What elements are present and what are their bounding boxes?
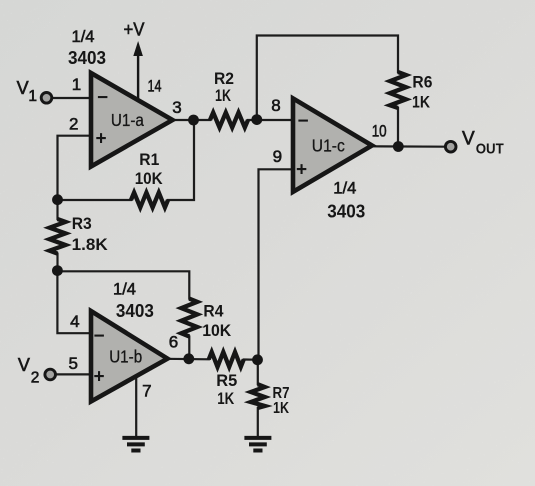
svg-text:2: 2 [31, 370, 40, 387]
svg-text:R1: R1 [139, 150, 159, 169]
wire: R5 right lead to R5/R7 node [244, 358, 259, 360]
svg-text:3: 3 [172, 98, 181, 117]
input terminal V2 [18, 355, 56, 387]
wire: R4 bottom lead to pin 6 node [188, 337, 190, 359]
svg-text:R3: R3 [72, 214, 92, 233]
resistor R4 [181, 299, 197, 337]
resistor R5 [209, 352, 244, 367]
node: pin 3 output junction [188, 115, 199, 126]
output terminal VOUT [445, 129, 503, 158]
svg-text:5: 5 [68, 354, 77, 373]
svg-text:1.8K: 1.8K [72, 235, 109, 254]
svg-text:6: 6 [169, 333, 178, 352]
wire: R1 right lead up to pin 3 node [168, 121, 194, 200]
node: pin 8 junction [251, 114, 262, 125]
node: R5/R7/pin9 junction [252, 354, 263, 365]
svg-text:3403: 3403 [327, 200, 365, 221]
svg-text:1: 1 [72, 75, 81, 94]
svg-text:9: 9 [273, 147, 282, 166]
power +V supply arrow [124, 20, 145, 101]
svg-text:U1-c: U1-c [312, 135, 345, 155]
node: output junction at pin 10 [393, 141, 404, 152]
svg-text:7: 7 [142, 381, 151, 400]
svg-text:1K: 1K [215, 86, 232, 105]
wire: node B across to R4 top lead [57, 271, 189, 298]
svg-text:3403: 3403 [68, 47, 106, 68]
resistor R1 [131, 193, 168, 208]
op-amp U1-a [91, 73, 173, 167]
svg-text:R4: R4 [203, 301, 223, 320]
op-amp U1-c [293, 98, 372, 191]
wire: U1-c pin 9 down to R5/R7 node [259, 169, 295, 359]
svg-text:R6: R6 [412, 73, 432, 92]
wire: R5/R7 node down to R7 [257, 360, 259, 384]
svg-text:V: V [462, 129, 475, 150]
svg-text:−: − [94, 326, 105, 347]
svg-text:U1-a: U1-a [111, 110, 144, 130]
wire: R7 bottom to ground [257, 408, 259, 437]
svg-text:1/4: 1/4 [113, 280, 136, 299]
svg-text:1: 1 [28, 88, 37, 105]
resistor R2 [210, 113, 248, 128]
svg-text:1/4: 1/4 [72, 27, 95, 46]
svg-text:14: 14 [148, 77, 162, 96]
svg-text:1K: 1K [273, 400, 289, 417]
svg-text:+: + [96, 129, 107, 150]
wire: R2 to U1-c pin 8 [248, 119, 294, 121]
wire: pin 8 node up and across to R6 [257, 36, 398, 120]
wire: V2 terminal to U1-b pin 5 [56, 373, 93, 375]
svg-text:10K: 10K [135, 169, 164, 188]
ground (below U1-b pin 7) [122, 438, 149, 451]
svg-text:4: 4 [70, 312, 79, 331]
svg-text:+: + [296, 159, 307, 180]
svg-text:10: 10 [372, 121, 387, 140]
wire: U1-c pin 10 output to VOUT terminal [370, 145, 446, 148]
wire: U1-a pin 3 output to R2 [171, 119, 210, 121]
svg-text:R5: R5 [216, 371, 237, 390]
resistor R3 [50, 219, 66, 254]
svg-text:−: − [97, 88, 108, 109]
resistor R6 [390, 72, 406, 108]
wire: node A to R1 left lead [58, 199, 132, 201]
wire: R3 bottom lead to node B [56, 254, 58, 271]
wire: V1 terminal to U1-a pin 1 [52, 97, 92, 99]
svg-text:+V: +V [124, 20, 145, 40]
svg-text:10K: 10K [202, 321, 232, 340]
svg-text:+: + [94, 367, 105, 388]
ground (below R7) [244, 438, 271, 451]
svg-text:1K: 1K [412, 93, 431, 112]
svg-text:2: 2 [69, 115, 78, 134]
node B: R3/U1-b feedback junction [52, 265, 63, 276]
wire: U1-a pin 2 to left bus [58, 136, 93, 200]
wire: node A to R3 top lead [56, 200, 58, 220]
wire: node B down to U1-b pin 4 [57, 271, 92, 334]
svg-text:8: 8 [271, 96, 280, 115]
svg-text:OUT: OUT [476, 141, 504, 158]
wire: U1-b pin 6 output to R5 [166, 358, 209, 361]
wire: U1-b pin 7 to ground [135, 377, 137, 437]
svg-text:1/4: 1/4 [333, 178, 356, 197]
node: pin 6 output junction [183, 353, 194, 364]
svg-text:V: V [17, 78, 29, 98]
svg-text:U1-b: U1-b [109, 346, 142, 366]
svg-text:1K: 1K [217, 389, 235, 408]
svg-text:V: V [18, 355, 30, 375]
resistor R7 [251, 384, 265, 408]
op-amp U1-b [91, 311, 168, 402]
wire: R6 bottom to output node [397, 108, 399, 147]
input terminal V1 [17, 78, 52, 105]
svg-text:−: − [298, 111, 309, 132]
node A: R1/R3/pin2 junction [52, 194, 63, 205]
svg-text:3403: 3403 [116, 300, 154, 321]
